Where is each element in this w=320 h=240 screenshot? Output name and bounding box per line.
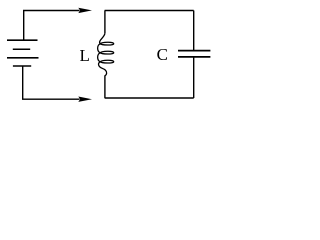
wire: LC loop right side lower (from capacitor) [193,57,195,98]
wire: LC loop left side upper (into inductor) [104,11,106,34]
capacitor C top plate [178,50,210,52]
wire: LC loop top edge [105,10,194,12]
battery B1 plate: bottom short (-) [13,65,31,67]
wire: LC loop bottom edge [105,97,194,99]
arrowhead: bottom current arrow [78,97,92,102]
capacitor C bottom plate [178,56,210,58]
wire: battery top lead up and right [24,11,80,41]
svg-text:C: C [157,45,168,64]
arrowhead: top current arrow [78,8,92,13]
wire: battery bottom lead down and right [23,66,80,99]
battery B1 plate: top long (+) [7,39,38,41]
wire: LC loop right side upper (to capacitor) [193,11,195,51]
inductor L coil (3 loops) [98,33,114,76]
battery B1 plate: lower long (+) [7,57,39,59]
wire: LC loop left side lower (from inductor) [104,75,106,98]
svg-text:L: L [80,46,90,65]
battery B1 plate: upper short (-) [13,48,30,50]
